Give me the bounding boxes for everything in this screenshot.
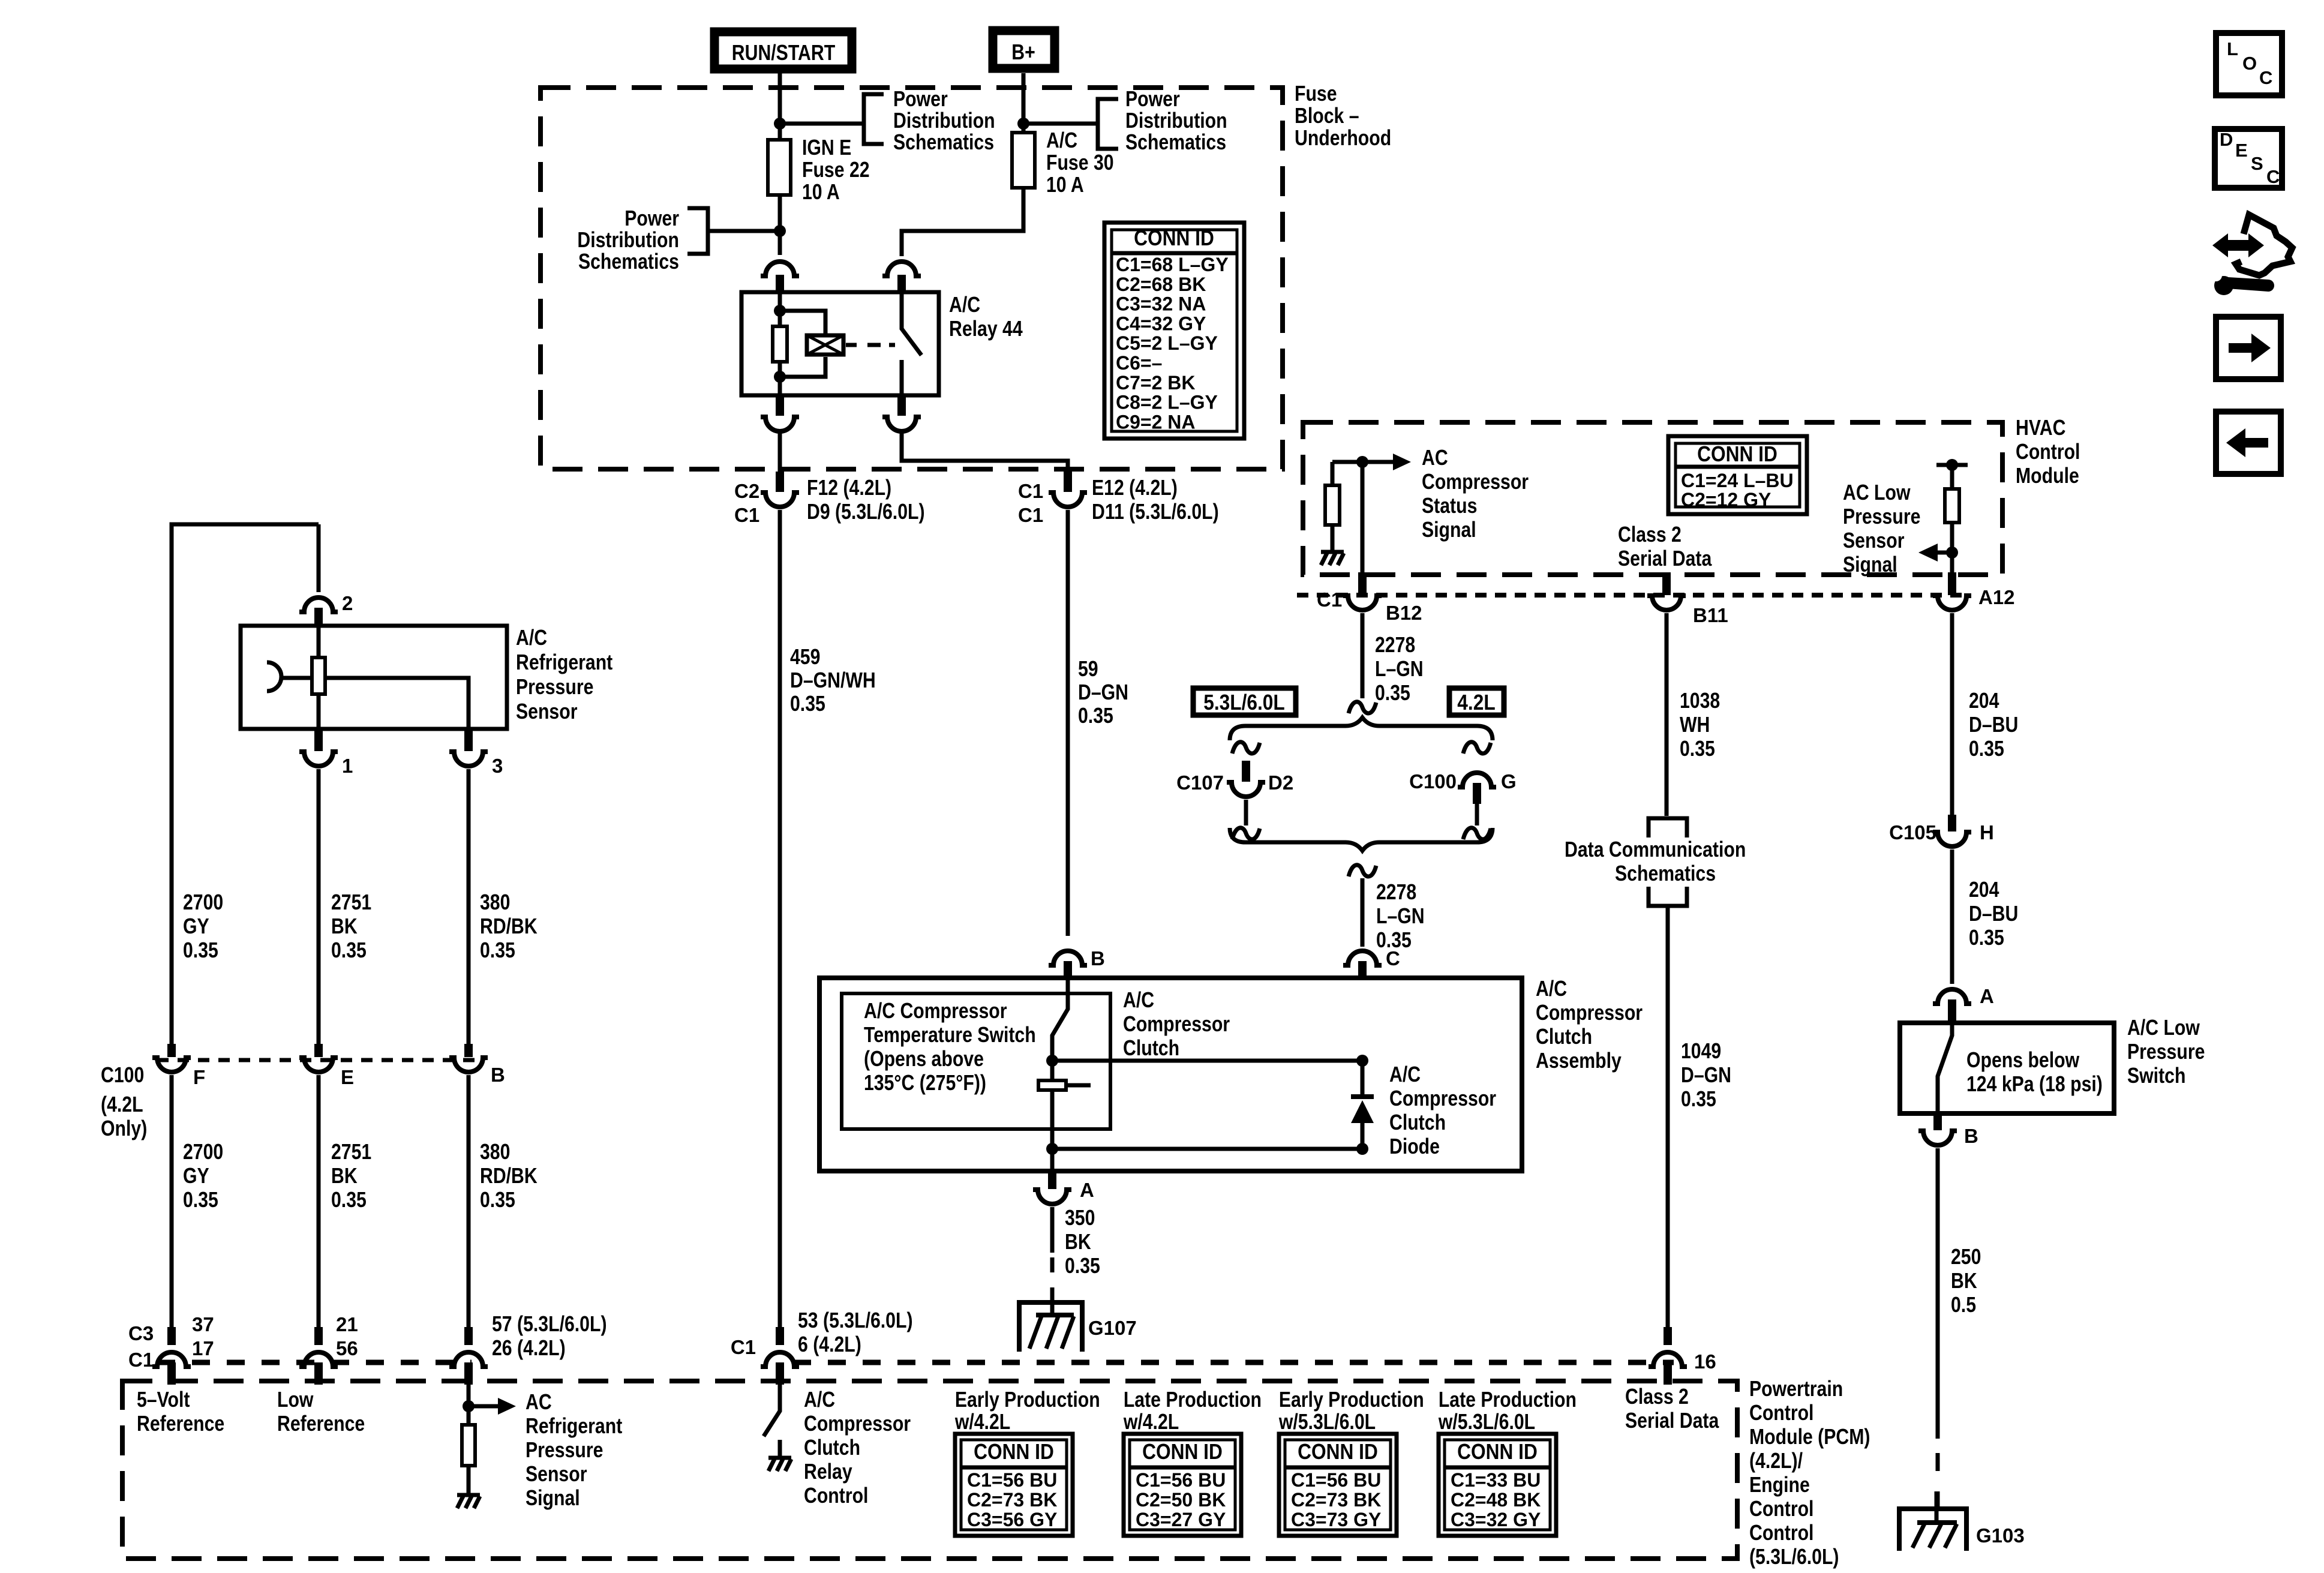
- conn id table fuse block: [1104, 223, 1244, 439]
- svg-text:C1=56 BUC2=50 BKC3=27 GY: C1=56 BUC2=50 BKC3=27 GY: [1136, 1469, 1226, 1530]
- fuse IGN E Fuse 22 10A: [768, 140, 791, 195]
- splice symbol left bottom: [1232, 828, 1260, 839]
- junction dot: [1017, 118, 1029, 130]
- conn id table HVAC: [1668, 436, 1807, 514]
- wire 2278 upper: [1361, 613, 1365, 698]
- svg-text:C1=56 BUC2=73 BKC3=73 GY: C1=56 BUC2=73 BKC3=73 GY: [1291, 1469, 1381, 1530]
- arrow AC compressor status signal: [1362, 454, 1411, 470]
- junction dot: [774, 305, 786, 317]
- brace top: [1230, 718, 1493, 740]
- wire to diode bottom: [1052, 1147, 1362, 1151]
- splice symbol left top: [1232, 742, 1260, 754]
- relay coil wire: [778, 292, 782, 395]
- connector C100 G: [1458, 773, 1496, 804]
- PCM pullup resistor: [462, 1425, 475, 1494]
- engine box 5.3L/6.0L: [1193, 688, 1296, 715]
- connector into relay coil: [761, 262, 799, 292]
- PCM dashed box: [122, 1381, 1737, 1559]
- svg-text:B+: B+: [1011, 41, 1035, 65]
- relay switch: [902, 292, 921, 395]
- svg-text:A: A: [1080, 1179, 1094, 1201]
- wire fuse30 to relay switch: [902, 190, 1023, 256]
- connector C105 H: [1933, 815, 1971, 846]
- connector class 2 pin 16: [1649, 1327, 1687, 1385]
- junction dot: [774, 371, 786, 383]
- A/C compressor clutch assembly box: [819, 978, 1522, 1171]
- wire B+ down: [1022, 73, 1026, 131]
- connector into relay switch: [882, 262, 921, 292]
- wire 2700 upper: [170, 660, 174, 1044]
- svg-text:E: E: [341, 1066, 354, 1088]
- svg-text:L: L: [2227, 38, 2238, 59]
- splice symbol top: [1349, 702, 1376, 713]
- terminal box RUN/START: [714, 32, 852, 69]
- connector pressure signal: [449, 1327, 488, 1385]
- connector low reference: [299, 1327, 338, 1385]
- svg-text:C105: C105: [1889, 821, 1936, 843]
- svg-text:A: A: [1980, 985, 1994, 1007]
- pressure symbol: [267, 662, 281, 691]
- wire 380 upper: [467, 769, 471, 1044]
- connector C107 D2: [1227, 761, 1265, 797]
- junction dot: [1356, 456, 1368, 468]
- wire 2700 lower: [170, 1075, 174, 1328]
- connector C100 F: [152, 1044, 191, 1072]
- low pressure switch blade: [1938, 1023, 1952, 1113]
- wire pin2 up: [317, 524, 321, 592]
- junction dot: [463, 1400, 475, 1412]
- svg-text:O: O: [2242, 53, 2257, 74]
- temperature switch box: [842, 993, 1110, 1129]
- wire 2278 lower: [1361, 878, 1365, 947]
- svg-text:G103: G103: [1976, 1524, 2025, 1547]
- connector 2: [299, 598, 338, 626]
- wire right branch: [1475, 804, 1479, 825]
- wire left branch: [1244, 800, 1248, 825]
- connector C100 E: [299, 1044, 338, 1072]
- connector C100 B: [449, 1044, 488, 1072]
- svg-text:C107: C107: [1176, 772, 1224, 794]
- bracket power distribution schematics 3: [687, 208, 708, 254]
- wire B12: [1361, 462, 1365, 572]
- splice symbol center bottom: [1349, 865, 1376, 876]
- relay coil output connector: [761, 395, 799, 431]
- svg-text:1: 1: [342, 755, 353, 777]
- connector 1: [299, 729, 338, 766]
- wire RUN/START down: [778, 73, 782, 255]
- status signal resistor: [1325, 462, 1340, 551]
- wire to diode top: [1052, 1059, 1362, 1063]
- svg-text:4.2L: 4.2L: [1457, 691, 1495, 715]
- brace bottom: [1230, 828, 1493, 851]
- data communication schematics reference: [1565, 818, 1746, 906]
- svg-text:D2: D2: [1268, 772, 1293, 794]
- icon wrench diagnostic: [2210, 215, 2292, 295]
- connector 5-volt reference: [152, 1327, 191, 1385]
- relay control switch in PCM: [764, 1385, 780, 1457]
- svg-text:B: B: [491, 1064, 505, 1086]
- fuse block underhood dashed box: [541, 88, 1283, 469]
- diode A/C compressor clutch diode: [1351, 1055, 1374, 1155]
- wire to power distribution bracket 2: [1023, 122, 1098, 126]
- svg-text:C100: C100: [1409, 770, 1457, 792]
- svg-text:B12: B12: [1386, 602, 1422, 624]
- wire coil out down: [778, 433, 782, 473]
- production table late 5.3L: [1438, 1388, 1577, 1536]
- relay A/C Relay 44 box: [741, 292, 939, 395]
- junction dot: [1046, 1143, 1058, 1155]
- wire 459 down: [778, 510, 782, 1327]
- pressure sensor signal wire in PCM: [467, 1385, 471, 1423]
- connector C1 C1: [1049, 472, 1087, 507]
- terminal box B+: [993, 31, 1055, 68]
- connector C1 B12: [1343, 572, 1382, 610]
- wire to power distribution bracket 3: [708, 229, 780, 233]
- icon arrow right box: [2216, 317, 2281, 379]
- fuse A/C Fuse 30 10A: [1012, 133, 1035, 188]
- wire clutch to A: [1050, 1149, 1055, 1171]
- svg-text:B: B: [1091, 947, 1105, 969]
- wire 59 down: [1066, 510, 1070, 936]
- junction dot: [774, 118, 786, 130]
- wire 380 lower: [467, 1075, 471, 1328]
- A/C refrigerant pressure sensor box: [241, 626, 507, 729]
- svg-text:B11: B11: [1693, 604, 1728, 626]
- icon arrow left box: [2216, 412, 2281, 474]
- svg-text:CONN ID: CONN ID: [1457, 1440, 1538, 1464]
- production table early 5.3L: [1278, 1388, 1424, 1536]
- svg-text:F: F: [193, 1066, 205, 1088]
- svg-text:C: C: [1386, 947, 1400, 969]
- svg-text:C1: C1: [1317, 589, 1342, 611]
- connector C2 C1: [761, 472, 799, 507]
- connector relay control: [761, 1327, 799, 1385]
- svg-text:C: C: [2259, 67, 2272, 88]
- arrow AC refrigerant pressure sensor signal: [469, 1398, 516, 1415]
- icon LOC box: [2216, 33, 2282, 95]
- bracket power distribution schematics 2: [1098, 99, 1118, 149]
- HVAC control module dashed box: [1303, 422, 2002, 575]
- AC low pressure sensor signal pullup bar: [1936, 463, 1968, 467]
- svg-text:CONN ID: CONN ID: [1134, 226, 1214, 250]
- junction dot: [774, 225, 786, 237]
- A/C low pressure switch box: [1900, 1023, 2114, 1113]
- sensor internal wires: [281, 626, 469, 729]
- icon DESC box: [2215, 129, 2282, 188]
- svg-text:C1=33 BUC2=48 BKC3=32 GY: C1=33 BUC2=48 BKC3=32 GY: [1451, 1469, 1541, 1530]
- svg-text:E: E: [2235, 140, 2248, 161]
- svg-text:CONN ID: CONN ID: [1298, 1440, 1378, 1464]
- relay switch output connector: [882, 395, 921, 431]
- sensor resistor: [312, 658, 325, 694]
- wire 250 BK: [1936, 1148, 1940, 1507]
- svg-text:3: 3: [492, 755, 503, 777]
- ground G107: [1019, 1287, 1082, 1352]
- wire switch out down and right: [902, 433, 1068, 473]
- svg-text:S: S: [2251, 153, 2263, 174]
- wire B11 down: [1647, 572, 1686, 610]
- ground in PCM pressure: [457, 1495, 480, 1508]
- production table early 4.2L: [954, 1388, 1100, 1536]
- ground in HVAC: [1321, 552, 1344, 565]
- wire to power distribution bracket 1: [780, 122, 864, 126]
- sensor top corner wire: [172, 524, 319, 1044]
- svg-text:2: 2: [342, 592, 353, 614]
- connector 3: [449, 729, 488, 766]
- ground G103: [1899, 1491, 1966, 1551]
- engine box 4.2L: [1449, 688, 1504, 715]
- splice symbol right top: [1463, 742, 1491, 754]
- wire status signal: [1332, 460, 1362, 464]
- wire 1049: [1666, 908, 1670, 1327]
- arrow AC low pressure sensor signal: [1918, 544, 1952, 562]
- svg-text:5.3L/6.0L: 5.3L/6.0L: [1203, 691, 1285, 715]
- connector A low pressure switch: [1933, 989, 1971, 1023]
- svg-text:C: C: [2266, 166, 2280, 187]
- wire 350 BK: [1050, 1207, 1055, 1302]
- connector B low pressure switch: [1918, 1113, 1957, 1145]
- wire 204 lower: [1950, 849, 1954, 984]
- wire 1038: [1665, 613, 1669, 816]
- bracket power distribution schematics 1: [864, 94, 884, 144]
- svg-text:B: B: [1964, 1125, 1978, 1147]
- temperature switch element: [1038, 1061, 1091, 1145]
- connector A clutch assembly: [1033, 1171, 1071, 1204]
- svg-text:Data Communication: Data Communication: [1565, 838, 1746, 862]
- svg-text:H: H: [1980, 821, 1994, 843]
- relay coil box with X: [807, 335, 843, 355]
- low pressure sensor resistor: [1945, 465, 1959, 572]
- junction dot: [1046, 1055, 1058, 1067]
- svg-text:G: G: [1501, 770, 1517, 792]
- svg-text:RUN/START: RUN/START: [732, 41, 835, 65]
- svg-text:CONN ID: CONN ID: [1697, 442, 1777, 466]
- svg-text:C1=56 BUC2=73 BKC3=56 GY: C1=56 BUC2=73 BKC3=56 GY: [967, 1469, 1057, 1530]
- wire 2751 upper: [317, 769, 321, 1044]
- PCM connector face dotted line: [157, 1360, 1674, 1365]
- wire 204 upper: [1950, 613, 1954, 815]
- junction dot: [1946, 459, 1958, 471]
- ground in PCM relay control: [768, 1458, 791, 1471]
- temperature switch blade: [1052, 978, 1068, 1057]
- splice symbol right bottom: [1463, 828, 1491, 839]
- wire 2751 lower: [317, 1075, 321, 1328]
- connector B clutch assembly: [1049, 951, 1087, 978]
- svg-text:D: D: [2220, 129, 2233, 150]
- svg-text:C100(4.2LOnly): C100(4.2LOnly): [101, 1064, 147, 1141]
- relay resistor: [773, 326, 787, 362]
- production table late 4.2L: [1123, 1388, 1262, 1536]
- svg-text:C1: C1: [731, 1336, 756, 1358]
- relay actuator dashed link: [846, 343, 895, 347]
- svg-text:16: 16: [1694, 1350, 1716, 1373]
- connector C clutch assembly: [1343, 951, 1382, 978]
- connector A12: [1933, 572, 1971, 610]
- C100 4.2L only dotted line: [157, 1058, 475, 1062]
- HVAC connector face dotted line: [1297, 593, 1968, 598]
- svg-text:Schematics: Schematics: [1615, 862, 1716, 886]
- svg-text:G107: G107: [1088, 1317, 1137, 1339]
- relay coil branch wire: [780, 311, 825, 377]
- svg-text:CONN ID: CONN ID: [1142, 1440, 1223, 1464]
- svg-text:A12: A12: [1978, 586, 2015, 608]
- junction dot: [1946, 547, 1958, 559]
- svg-text:CONN ID: CONN ID: [974, 1440, 1054, 1464]
